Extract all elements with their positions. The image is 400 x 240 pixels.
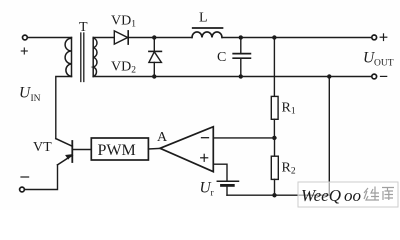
junction capacitor top (239, 36, 243, 40)
output terminal - (372, 74, 377, 79)
wire primary bottom to collector (56, 77, 72, 139)
wire comparator minus input to divider (213, 137, 274, 139)
svg-text:R2: R2 (282, 161, 296, 177)
diode VD1 (114, 31, 127, 44)
transformer T secondary winding (93, 38, 97, 77)
resistor R1 (273, 38, 275, 97)
wire comparator plus input to battery (213, 164, 227, 181)
PWM box (91, 138, 148, 160)
junction R2 bottom (273, 193, 277, 197)
svg-text:oo: oo (344, 186, 361, 205)
watermark box (298, 182, 398, 207)
input terminal + (top-left) (23, 35, 28, 40)
minus input marker (202, 137, 209, 139)
watermark hanzi 维库 (364, 187, 394, 201)
wire base to PWM (72, 149, 91, 151)
input terminal - (bottom-left) (20, 187, 25, 192)
minus label (output) (381, 75, 387, 77)
output terminal + (372, 35, 377, 40)
inductor L (192, 32, 222, 38)
plus label (output) (380, 34, 387, 41)
transformer T primary winding (65, 38, 71, 77)
wire VD1 to inductor (128, 37, 192, 39)
junction R1 top (272, 36, 276, 40)
wire PWM to comparator node A (148, 147, 160, 150)
capacitor C (240, 38, 242, 54)
svg-text:A: A (157, 130, 168, 145)
diode VD2 (freewheeling, vertical) (153, 38, 155, 52)
plus label (input) (21, 48, 27, 54)
svg-text:VD2: VD2 (111, 60, 136, 76)
op-amp comparator (160, 127, 213, 172)
plus input marker (201, 154, 208, 161)
svg-text:IN: IN (31, 94, 41, 104)
minus output rail (93, 76, 372, 78)
wire inductor to + output terminal (222, 37, 372, 39)
svg-text:OUT: OUT (374, 59, 394, 69)
svg-text:T: T (79, 20, 88, 35)
svg-text:PWM: PWM (98, 142, 136, 159)
resistor R2 (274, 138, 276, 156)
wire battery to bottom rail (226, 185, 228, 195)
junction divider midpoint (272, 136, 276, 140)
svg-text:R1: R1 (282, 101, 296, 117)
junction VD2 bottom (152, 75, 156, 79)
transistor VT (56, 139, 73, 165)
wire input to transformer (27, 37, 71, 39)
svg-text:C: C (217, 50, 226, 65)
transformer core (80, 33, 82, 82)
junction capacitor bottom (239, 75, 243, 79)
svg-text:WeeQ: WeeQ (301, 186, 341, 205)
minus label (input) (21, 176, 29, 178)
svg-text:L: L (199, 11, 208, 26)
svg-text:VT: VT (33, 140, 52, 155)
battery Ur (217, 180, 238, 182)
bottom feedback rail (227, 77, 329, 196)
junction VD2 top (152, 36, 156, 40)
wire emitter to minus input terminal (25, 165, 58, 190)
wire secondary top to VD1 (93, 37, 114, 39)
inductor L core bar (193, 27, 223, 29)
svg-text:r: r (211, 189, 215, 199)
junction feedback to minus rail (327, 75, 331, 79)
svg-text:VD1: VD1 (111, 14, 136, 30)
